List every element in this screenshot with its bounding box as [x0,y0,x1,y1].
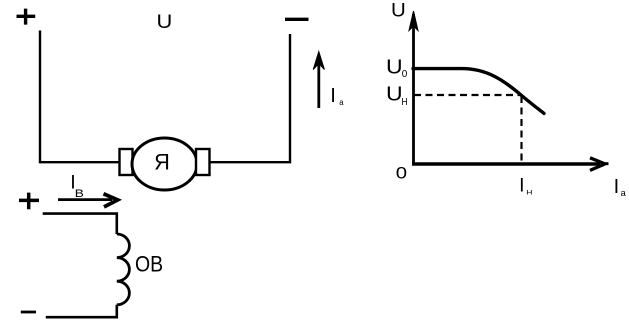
dashed line UH (horizontal to curve) [414,94,522,96]
svg-text:a: a [621,188,627,199]
x axis Ia (graph current axis) [412,162,600,165]
minus terminal (field winding -) [21,311,36,314]
svg-text:U: U [386,82,403,105]
svg-text:H: H [401,96,407,107]
coil OB (field winding, 3 arcs) [117,234,130,305]
svg-text:OB: OB [135,252,163,276]
svg-text:B: B [75,187,84,199]
arrow IB (field current, points right) [58,198,112,201]
svg-text:U: U [386,55,403,78]
wire: left vertical from + down and across to left brush [40,31,120,163]
brush left (armature terminal) [120,149,133,175]
svg-text:Я: Я [154,149,170,174]
wire: right horizontal from right brush and up to - [210,34,291,162]
plus terminal (armature supply +) [17,9,36,25]
curve: external characteristic U(Ia) [413,69,544,114]
svg-text:0: 0 [402,69,408,80]
armature Я (motor armature circle) [132,138,197,190]
svg-text:I: I [614,176,620,198]
svg-text:U: U [391,0,406,21]
svg-text:0: 0 [396,163,407,182]
wire: field circuit top from + across and down to coil [43,214,117,234]
arrow Ia (armature current, points up) [317,57,320,108]
wire: field circuit bottom from coil down and across to - [46,305,117,317]
dashed line IH (vertical to axis) [520,96,522,163]
svg-text:I: I [519,175,524,196]
brush right (armature terminal) [196,149,210,175]
svg-text:a: a [339,98,344,107]
svg-text:I: I [330,85,336,107]
svg-text:H: H [526,189,532,197]
plus terminal (field winding +) [19,193,39,210]
y axis U (graph voltage axis) [412,14,415,165]
minus terminal (armature supply -) [285,18,309,21]
svg-text:U: U [157,11,173,33]
